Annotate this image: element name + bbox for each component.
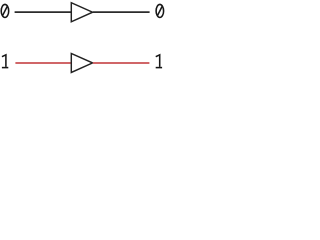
node 0 output label bbox=[156, 4, 164, 17]
node 0 input label bbox=[1, 4, 9, 17]
buffer U1 bbox=[71, 3, 92, 22]
wire input to buffer U2 bbox=[15, 62, 71, 64]
buffer U2 bbox=[71, 53, 92, 72]
wire buffer U2 output bbox=[93, 62, 150, 64]
wire input to buffer U1 bbox=[15, 11, 71, 13]
node 1 input label bbox=[2, 55, 8, 68]
node 1 output label bbox=[156, 55, 162, 68]
wire buffer U1 output bbox=[93, 11, 150, 13]
